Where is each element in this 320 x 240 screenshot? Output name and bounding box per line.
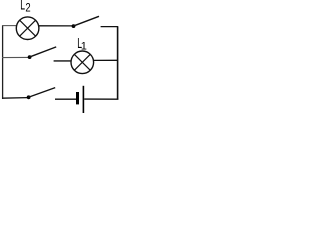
wire top-left to lamp L2 [2,25,16,27]
switch S1 blade [29,47,56,57]
wire right rail [117,27,119,100]
svg-text:L: L [20,0,25,13]
wire bottom-left to switch S3 [2,97,27,100]
battery positive plate (long thin) [82,86,84,113]
wire lamp L1 to right rail [94,59,118,61]
switch S2 pivot dot [72,24,76,28]
switch S3 blade [28,88,55,98]
svg-text:2: 2 [25,0,31,14]
wire lamp L2 to switch S2 [39,25,73,27]
svg-text:1: 1 [81,41,87,53]
battery negative plate (short thick) [76,92,79,104]
switch S1 pivot dot [28,55,32,59]
wire left rail [2,25,4,99]
switch S3 pivot dot [27,95,31,99]
wire switch S3 contact to battery [55,98,76,100]
wire middle-left to switch S1 [2,56,28,58]
wire switch S2 contact to right rail [101,26,119,28]
lamp L2 [16,17,39,40]
switch S2 blade [73,16,99,26]
lamp L1 [71,51,94,74]
wire battery to right rail [84,98,118,100]
wire switch S1 contact to lamp L1 [54,60,72,62]
